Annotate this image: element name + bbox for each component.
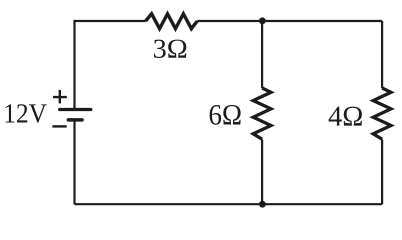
node B: bottom junction dot [259, 201, 266, 208]
resistor R3 4Ω (right, vertical zigzag) [373, 88, 391, 139]
wire: right branch bottom, 4-ohm resistor to bottom-right corner [381, 139, 383, 204]
resistor R2 6Ω (middle, vertical zigzag) [253, 88, 271, 139]
value label 12V [6, 104, 47, 123]
value label 3Ω [154, 40, 186, 58]
value label 6Ω [210, 105, 241, 125]
polarity minus sign [52, 125, 66, 127]
polarity plus sign [53, 90, 67, 104]
battery V1 negative plate (short) [68, 118, 82, 122]
resistor R1 3Ω (top, horizontal zigzag) [146, 14, 198, 29]
wire: top segment from 3-ohm resistor to top-right corner [197, 20, 382, 22]
wire: left-top segment from battery positive up and along top to 3-ohm resistor [75, 21, 146, 109]
battery V1 positive plate (long) [60, 108, 91, 111]
wire: middle branch top, junction to 6-ohm resistor [261, 21, 263, 88]
value label 4Ω [329, 107, 362, 126]
wire: middle branch bottom, 6-ohm resistor to bottom junction [261, 139, 263, 204]
node A: top junction dot [259, 17, 266, 24]
wire: bottom segment from bottom-left corner to bottom-right corner [75, 203, 383, 205]
wire: right branch top, top-right corner down to 4-ohm resistor [381, 21, 383, 88]
wire: left-bottom segment from battery negative down to bottom-left corner [73, 121, 75, 205]
